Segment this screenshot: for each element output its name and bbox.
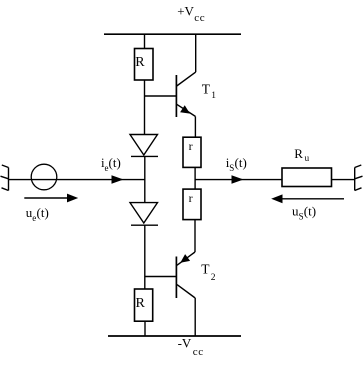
wire bbox=[194, 167, 196, 189]
svg-text:(t): (t) bbox=[304, 204, 316, 219]
svg-text:(t): (t) bbox=[235, 155, 247, 170]
wire bbox=[332, 179, 355, 181]
label is bbox=[226, 155, 247, 173]
source bbox=[31, 164, 57, 190]
resistor r1 bbox=[183, 137, 201, 167]
+Vcc rail bbox=[104, 33, 241, 35]
svg-text:R: R bbox=[136, 296, 146, 311]
label ie bbox=[101, 155, 121, 173]
svg-text:R: R bbox=[294, 146, 303, 161]
label T2 bbox=[201, 261, 216, 283]
wire bbox=[144, 34, 146, 48]
svg-text:r: r bbox=[189, 139, 193, 153]
label T1 bbox=[202, 82, 216, 101]
wire bbox=[195, 179, 282, 181]
wire bbox=[144, 156, 146, 202]
svg-text:2: 2 bbox=[211, 273, 216, 283]
svg-text:r: r bbox=[189, 191, 193, 205]
svg-text:(t): (t) bbox=[37, 205, 49, 220]
+Vcc label bbox=[177, 4, 205, 24]
svg-text:(t): (t) bbox=[109, 155, 121, 170]
arrow us bbox=[271, 194, 344, 203]
wire bbox=[144, 225, 146, 289]
svg-text:R: R bbox=[135, 55, 145, 70]
wire bbox=[9, 179, 145, 181]
svg-text:cc: cc bbox=[194, 12, 205, 24]
break symbol right bbox=[355, 165, 363, 191]
svg-text:cc: cc bbox=[193, 346, 204, 358]
transistor T1 bbox=[176, 34, 195, 137]
diode D2 bbox=[130, 203, 158, 226]
svg-text:S: S bbox=[229, 163, 234, 173]
svg-text:1: 1 bbox=[211, 91, 216, 101]
label Ru bbox=[294, 146, 309, 163]
svg-text:T: T bbox=[202, 82, 211, 97]
arrow is bbox=[232, 175, 244, 183]
-Vcc rail bbox=[108, 335, 241, 337]
svg-text:+V: +V bbox=[177, 4, 194, 19]
resistor R1 bbox=[135, 49, 154, 81]
diode D1 bbox=[130, 135, 158, 157]
transistor T2 bbox=[176, 220, 195, 336]
wire bbox=[144, 80, 146, 135]
resistor R2 bbox=[135, 289, 153, 321]
label ue bbox=[26, 205, 49, 223]
svg-text:-V: -V bbox=[178, 336, 192, 351]
label us bbox=[292, 204, 316, 222]
arrow ie bbox=[112, 175, 124, 183]
resistor r2 bbox=[183, 189, 201, 220]
wire bbox=[145, 95, 177, 97]
-Vcc label bbox=[178, 336, 204, 358]
arrow ue bbox=[24, 194, 78, 203]
svg-text:u: u bbox=[305, 153, 310, 163]
svg-text:T: T bbox=[201, 261, 210, 276]
break symbol left bbox=[1, 165, 9, 191]
wire bbox=[144, 321, 146, 336]
resistor Ru bbox=[282, 168, 332, 187]
wire bbox=[145, 276, 177, 278]
